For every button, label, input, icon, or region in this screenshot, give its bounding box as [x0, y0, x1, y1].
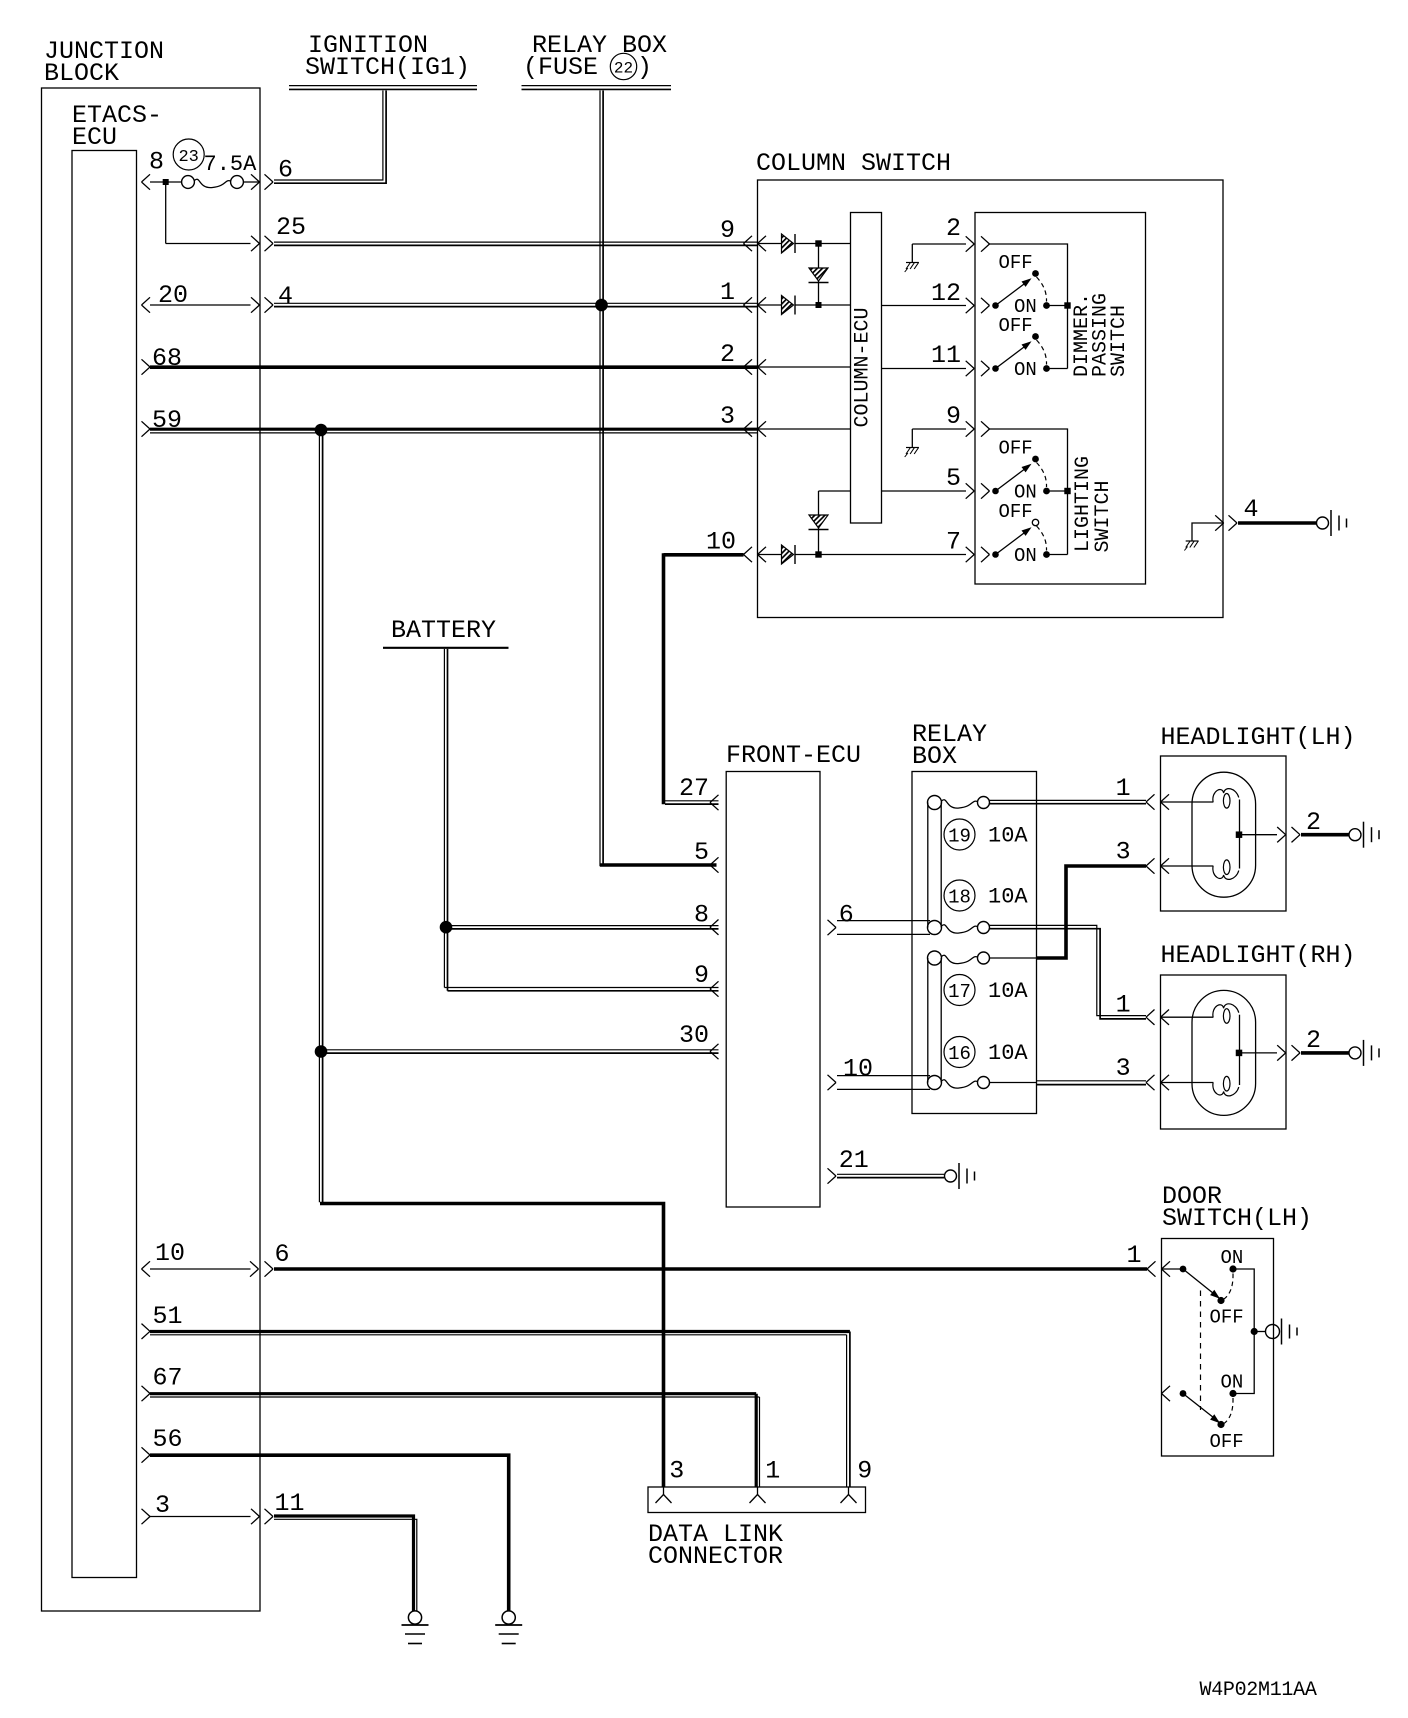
- ETACS pin 3 arrow: [142, 1509, 151, 1524]
- wire battery to front-ecu pin9: [444, 988, 718, 991]
- svg-text:17: 17: [948, 981, 971, 1003]
- ETACS pin 20 arrow: [142, 297, 151, 312]
- svg-text:67: 67: [153, 1364, 183, 1393]
- dlc pin 1 fork: [750, 1487, 766, 1503]
- junction block pin 11 arrows: [251, 1509, 273, 1524]
- junction wire59 drop: [315, 424, 327, 436]
- svg-text:COLUMN-ECU: COLUMN-ECU: [852, 307, 875, 427]
- headlight RH label: [1161, 941, 1356, 970]
- wire riser to dlc pin 3: [320, 1204, 664, 1488]
- door switch upper contact: [1180, 1266, 1225, 1305]
- front-ecu pin 30 label: [679, 1021, 709, 1050]
- fuse 16: [928, 1076, 990, 1090]
- headlight LH pin 1 label: [1116, 774, 1131, 803]
- door switch upper dashed: [1224, 1274, 1233, 1300]
- door switch upper OFF label: [1210, 1307, 1244, 1329]
- ETACS pin 67 label: [153, 1364, 183, 1393]
- wire pin8 to fuse: [150, 181, 182, 183]
- wire col10 to lighting switch: [795, 554, 966, 556]
- fuse 17: [928, 951, 990, 965]
- fuse 17 label: [944, 975, 1028, 1006]
- dlc pin 9 label: [857, 1457, 872, 1486]
- dlc pin 9 fork: [841, 1487, 857, 1503]
- svg-text:10: 10: [155, 1239, 185, 1268]
- dimmer switch passing dashed: [1037, 340, 1047, 365]
- wire riser to front-ecu pin27: [664, 801, 719, 804]
- svg-text:5: 5: [946, 464, 961, 493]
- dlc pin 3 label: [669, 1457, 684, 1486]
- dimmer-passing switch box: [975, 213, 1146, 585]
- svg-text:4: 4: [1244, 495, 1259, 524]
- column pin 4 label: [1244, 495, 1259, 524]
- column ecu pin 2 arrows: [966, 236, 990, 251]
- door switch LH box: [1162, 1239, 1274, 1457]
- ETACS-ECU label: [72, 101, 162, 152]
- column ecu pin 7 arrows: [966, 547, 990, 562]
- svg-text:8: 8: [694, 901, 709, 930]
- wire ecu pin12: [882, 305, 967, 307]
- svg-text:12: 12: [931, 279, 961, 308]
- ETACS pin 68 label: [152, 344, 182, 373]
- front-ecu pin 6 label: [839, 901, 854, 930]
- junction block box: [42, 88, 261, 1611]
- wire RH pin3 to bulb: [1161, 1082, 1214, 1084]
- ETACS pin 59 arrow: [142, 421, 151, 436]
- junction block pin 4 arrows: [251, 297, 273, 312]
- svg-text:OFF: OFF: [1210, 1307, 1244, 1329]
- wire fuse16 out: [990, 1082, 1037, 1084]
- svg-text:51: 51: [153, 1302, 183, 1331]
- svg-text:BOX: BOX: [912, 742, 957, 771]
- wire fuse22 drop: [600, 91, 603, 867]
- svg-text:23: 23: [178, 148, 198, 167]
- column pin 2 label: [720, 340, 735, 369]
- wire 59 to column pin 3: [150, 429, 758, 433]
- fuse 19-18 bus: [928, 803, 941, 928]
- svg-text:9: 9: [946, 402, 961, 431]
- wire 25 to column pin 9: [274, 242, 758, 245]
- lighting switch head contact: [992, 519, 1039, 558]
- svg-text:BLOCK: BLOCK: [44, 59, 119, 88]
- wire fuse19 to headlight LH pin1: [990, 800, 1147, 803]
- ETACS pin 56 label: [153, 1425, 183, 1454]
- junction door switch ground: [1251, 1328, 1258, 1335]
- wire ecu pin11: [882, 368, 967, 370]
- headlight RH pin 1 label: [1116, 991, 1131, 1020]
- ground wire 56: [495, 1611, 522, 1644]
- ETACS pin 68 arrow: [142, 359, 151, 374]
- wire fuse to junction edge: [244, 181, 260, 183]
- junction block pin 6 arrows: [251, 174, 273, 189]
- headlight RH box: [1161, 975, 1287, 1129]
- svg-text:3: 3: [1116, 1054, 1131, 1083]
- wire dimmer common: [912, 243, 966, 245]
- wire pin21 to ground: [837, 1174, 944, 1177]
- relay box (fuse 22) bus bar: [522, 86, 672, 90]
- column pin 9 label: [720, 216, 735, 245]
- relay box label: [912, 720, 987, 771]
- ignition switch bus bar: [289, 86, 477, 90]
- column ecu pin 9 label: [946, 402, 961, 431]
- fuse 17-16 bus: [928, 958, 941, 1083]
- svg-text:11: 11: [275, 1489, 305, 1518]
- svg-text:3: 3: [1116, 838, 1131, 867]
- headlight LH pin 3 label: [1116, 838, 1131, 867]
- svg-text:3: 3: [720, 402, 735, 431]
- junction wire drop - pin30: [315, 1046, 327, 1058]
- svg-text:10A: 10A: [988, 824, 1028, 849]
- junction block pin 6b label: [275, 1240, 290, 1269]
- ETACS pin 3 label: [155, 1491, 170, 1520]
- dimmer switch hi OFF label: [999, 252, 1033, 274]
- ETACS pin 56 arrow: [142, 1447, 151, 1462]
- svg-text:SWITCH(LH): SWITCH(LH): [1162, 1204, 1312, 1233]
- data link connector box: [648, 1487, 866, 1513]
- headlight RH pin 2 arrows: [1277, 1045, 1300, 1060]
- wire drop to front-ecu pin30: [323, 1050, 719, 1053]
- svg-text:CONNECTOR: CONNECTOR: [648, 1542, 783, 1571]
- ground column switch: [1317, 510, 1347, 536]
- wire pin6 to fuse 18: [837, 921, 930, 935]
- headlight RH pin 2 label: [1306, 1026, 1321, 1055]
- wire row3 inside junction: [150, 1516, 251, 1518]
- door switch lower ON label: [1221, 1372, 1244, 1394]
- dimmer-passing switch label: [1071, 293, 1131, 377]
- svg-text:6: 6: [839, 901, 854, 930]
- svg-text:10A: 10A: [988, 1041, 1028, 1066]
- diode col9-col1: [809, 244, 829, 306]
- svg-text:HEADLIGHT(LH): HEADLIGHT(LH): [1161, 723, 1356, 752]
- junction block pin 4 label: [278, 282, 293, 311]
- door switch link dashed: [1200, 1291, 1202, 1411]
- wire ecu pin5: [882, 490, 967, 492]
- svg-text:56: 56: [153, 1425, 183, 1454]
- ETACS pin 20 label: [158, 281, 188, 310]
- wire 59 drop to dlc-3 riser: [319, 430, 322, 1202]
- wire LH bulb to pin2: [1240, 834, 1278, 836]
- column ecu pin 5 label: [946, 464, 961, 493]
- svg-text:OFF: OFF: [999, 501, 1033, 523]
- svg-text:2: 2: [1306, 808, 1321, 837]
- svg-text:6: 6: [275, 1240, 290, 1269]
- ETACS pin 10 arrow: [142, 1261, 274, 1276]
- fuse 19 label: [944, 819, 1028, 850]
- wire 51 riser: [847, 1332, 850, 1488]
- wire row25 inside junction: [166, 243, 251, 245]
- svg-text:9: 9: [857, 1457, 872, 1486]
- svg-text:2: 2: [720, 340, 735, 369]
- wire fuse17 to headlight LH pin3: [1037, 866, 1147, 958]
- wire door switch to ground: [1254, 1331, 1265, 1333]
- dimmer switch hi contact: [992, 270, 1039, 309]
- junction block pin 6 label: [278, 156, 293, 185]
- headlight RH pin 3 arrows: [1146, 1075, 1169, 1090]
- svg-text:SWITCH: SWITCH: [1108, 305, 1131, 377]
- door switch bus: [1233, 1269, 1254, 1394]
- front-ecu pin 5 label: [694, 838, 709, 867]
- headlight LH pin 3 arrows: [1146, 858, 1169, 873]
- junction block pin 25 label: [276, 213, 306, 242]
- lighting switch head ON dot: [1043, 551, 1067, 558]
- battery bus bar: [383, 647, 509, 649]
- column pin 1 arrows: [744, 297, 767, 312]
- wire fuse18 to headlight RH pin1: [990, 925, 1147, 1019]
- column switch box: [758, 180, 1224, 618]
- svg-text:1: 1: [720, 278, 735, 307]
- door switch lower contact: [1180, 1390, 1225, 1428]
- lighting switch head ON label: [1014, 545, 1037, 567]
- wire RH bulb to pin2: [1240, 1052, 1278, 1054]
- svg-text:COLUMN SWITCH: COLUMN SWITCH: [756, 149, 951, 178]
- dimmer switch hi ON dot: [1043, 302, 1067, 309]
- lighting switch head dashed: [1037, 526, 1047, 551]
- headlight RH pin 3 label: [1116, 1054, 1131, 1083]
- lighting switch tail ON label: [1014, 482, 1037, 504]
- column ecu pin 11 label: [931, 341, 961, 370]
- diode col pin10: [782, 545, 796, 564]
- door switch lower ON dot: [1229, 1390, 1236, 1397]
- column pin 9 arrows: [744, 236, 767, 251]
- dimmer switch passing ON label: [1014, 359, 1037, 381]
- column pin 3 arrows: [744, 421, 767, 436]
- svg-text:7.5A: 7.5A: [204, 152, 258, 177]
- wire col10 diode: [758, 554, 782, 556]
- svg-text:SWITCH: SWITCH: [1092, 480, 1115, 552]
- svg-text:3: 3: [155, 1491, 170, 1520]
- wire fuse17 out: [990, 957, 1037, 959]
- ETACS pin 10 label: [155, 1239, 185, 1268]
- wire battery to front-ecu pin8: [446, 926, 719, 929]
- svg-text:(FUSE: (FUSE: [523, 53, 598, 82]
- wire LH pin2 to ground: [1301, 833, 1349, 837]
- drawing number: [1200, 1679, 1317, 1702]
- svg-text:5: 5: [694, 838, 709, 867]
- front-ecu pin 6 arrow: [828, 920, 837, 935]
- svg-text:2: 2: [946, 214, 961, 243]
- svg-text:9: 9: [720, 216, 735, 245]
- lighting switch tail OFF label: [999, 438, 1033, 460]
- relay box box: [912, 772, 1037, 1114]
- front-ecu box: [726, 772, 820, 1208]
- svg-text:11: 11: [931, 341, 961, 370]
- column ecu pin 2 label: [946, 214, 961, 243]
- ETACS pin 51 arrow: [142, 1324, 151, 1339]
- dlc pin 1 label: [765, 1457, 780, 1486]
- junction dot fuse 23 input: [163, 179, 169, 185]
- wire 67 riser: [756, 1394, 759, 1487]
- svg-text:HEADLIGHT(RH): HEADLIGHT(RH): [1161, 941, 1356, 970]
- column pin 10 label: [706, 528, 736, 557]
- svg-text:FRONT-ECU: FRONT-ECU: [726, 741, 861, 770]
- lighting switch tail ON dot: [1043, 488, 1067, 495]
- wire 67 to dlc pin 1: [150, 1394, 760, 1397]
- column pin 10 wire: [664, 553, 744, 557]
- door switch lower arrow: [1162, 1386, 1171, 1401]
- junction block pin 25 arrows: [251, 236, 273, 251]
- wire 68 to column pin 2: [150, 365, 758, 369]
- door switch pin 1 label: [1126, 1241, 1141, 1270]
- column pin 3 label: [720, 402, 735, 431]
- junction lighting bus: [1064, 488, 1070, 494]
- door switch lower dashed: [1224, 1398, 1233, 1424]
- front-ecu pin 9 arrow: [710, 981, 719, 996]
- column switch label: [756, 149, 951, 178]
- dimmer switch hi dashed: [1037, 277, 1047, 302]
- lighting switch tail dashed: [1037, 463, 1047, 488]
- battery label: [391, 616, 496, 645]
- column pin 2 arrows: [744, 359, 767, 374]
- wire col2 to ecu: [758, 366, 851, 368]
- svg-text:BATTERY: BATTERY: [391, 616, 496, 645]
- svg-text:8: 8: [149, 148, 164, 177]
- column-ecu box: [851, 213, 882, 524]
- svg-text:): ): [637, 53, 652, 82]
- diode col pin1: [782, 296, 796, 315]
- wire pin10 to fuse 16: [837, 1076, 930, 1090]
- wire LH pin3 to bulb: [1161, 865, 1214, 867]
- column pin 4 ground stub: [1192, 523, 1223, 541]
- svg-text:2: 2: [1306, 1026, 1321, 1055]
- ignition switch label: [305, 31, 470, 82]
- ground headlight RH: [1349, 1040, 1379, 1066]
- svg-text:19: 19: [948, 826, 971, 848]
- wire LH pin1 to bulb: [1161, 801, 1214, 803]
- dimmer switch passing ON dot: [1043, 365, 1067, 372]
- junction wire4-fuse22: [596, 299, 608, 311]
- door switch pin 1 arrows: [1147, 1261, 1170, 1276]
- wire col1 to ecu: [795, 304, 851, 306]
- data link connector label: [648, 1520, 783, 1571]
- front-ecu pin 30 arrow: [710, 1044, 719, 1059]
- svg-text:22: 22: [614, 60, 633, 78]
- fuse 16 label: [944, 1037, 1028, 1068]
- svg-text:3: 3: [669, 1457, 684, 1486]
- headlight LH pin 2 label: [1306, 808, 1321, 837]
- ground column dimmer: [905, 244, 919, 272]
- svg-text:1: 1: [1126, 1241, 1141, 1270]
- svg-text:1: 1: [765, 1457, 780, 1486]
- wire dimmer common bus: [990, 244, 1068, 369]
- svg-text:OFF: OFF: [999, 438, 1033, 460]
- door switch upper ON dot: [1229, 1265, 1236, 1272]
- svg-text:10A: 10A: [988, 979, 1028, 1004]
- wire 56 to ground: [150, 1455, 509, 1611]
- junction battery - pin8: [440, 921, 452, 933]
- junction col10: [815, 551, 821, 557]
- headlight RH pin 1 arrows: [1146, 1010, 1169, 1025]
- column pin 10 arrows: [744, 547, 767, 562]
- svg-text:21: 21: [839, 1146, 869, 1175]
- junction block pin 11 label: [275, 1489, 305, 1518]
- svg-text:10: 10: [706, 528, 736, 557]
- column pin 4 arrows: [1215, 515, 1237, 530]
- ground headlight LH: [1349, 822, 1379, 848]
- wire fuse drop to row 25: [165, 182, 167, 244]
- column ecu pin 12 arrows: [966, 298, 990, 313]
- lighting switch head OFF label: [999, 501, 1033, 523]
- wire lighting common: [912, 428, 966, 430]
- fuse 23 rating label: [173, 139, 257, 177]
- ETACS pin 51 label: [153, 1302, 183, 1331]
- front-ecu pin 9 label: [694, 961, 709, 990]
- ground door switch: [1266, 1319, 1298, 1345]
- ETACS pin 59 label: [152, 406, 182, 435]
- svg-text:ON: ON: [1014, 545, 1037, 567]
- fuse 19: [928, 796, 990, 810]
- ground front-ecu pin21: [945, 1163, 975, 1189]
- dimmer switch passing contact: [992, 333, 1039, 372]
- wire col9 diode: [758, 243, 782, 245]
- svg-text:ON: ON: [1014, 359, 1037, 381]
- ground column lighting: [905, 429, 919, 457]
- wire lighting common bus: [990, 429, 1068, 555]
- diode col pin9: [782, 234, 796, 253]
- svg-text:W4P02M11AA: W4P02M11AA: [1200, 1679, 1317, 1702]
- front-ecu label: [726, 741, 861, 770]
- wire col9 to ecu: [795, 243, 851, 245]
- ETACS pin 8 arrow: [142, 174, 151, 189]
- column pin 7 label: [946, 528, 961, 557]
- svg-text:ECU: ECU: [72, 123, 117, 152]
- headlight LH bulb: [1192, 772, 1256, 897]
- front-ecu pin 21 arrow: [828, 1168, 837, 1183]
- door switch LH label: [1162, 1182, 1312, 1233]
- dimmer switch passing OFF label: [999, 315, 1033, 337]
- front-ecu pin 27 arrow: [710, 795, 719, 810]
- junction dimmer bus: [1064, 302, 1070, 308]
- svg-text:1: 1: [1116, 991, 1131, 1020]
- dimmer switch hi ON label: [1014, 296, 1037, 318]
- svg-text:30: 30: [679, 1021, 709, 1050]
- fuse 23: [182, 176, 244, 189]
- ground column pin4: [1184, 541, 1198, 551]
- svg-text:OFF: OFF: [1210, 1431, 1244, 1453]
- front-ecu pin 8 arrow: [710, 920, 719, 935]
- svg-text:25: 25: [276, 213, 306, 242]
- wire RH pin1 to bulb: [1161, 1016, 1214, 1018]
- fuse 18 label: [944, 880, 1028, 911]
- wire 11 to ground: [274, 1516, 417, 1611]
- column-ecu label: [852, 307, 875, 427]
- ETACS pin 8 label: [149, 148, 164, 177]
- ETACS pin 67 arrow: [142, 1386, 151, 1401]
- headlight LH pin 1 arrows: [1146, 794, 1169, 809]
- svg-text:7: 7: [946, 528, 961, 557]
- front-ecu pin 27 label: [679, 774, 709, 803]
- diode col5-col10: [809, 491, 851, 555]
- svg-text:1: 1: [1116, 774, 1131, 803]
- wire column pin10 riser: [662, 553, 666, 804]
- wire 4 to column pin 1: [274, 303, 758, 306]
- svg-text:OFF: OFF: [999, 252, 1033, 274]
- wire RH pin2 to ground: [1301, 1051, 1349, 1055]
- svg-text:16: 16: [948, 1043, 971, 1065]
- wire 51 to dlc pin 9: [150, 1332, 850, 1335]
- svg-text:SWITCH(IG1): SWITCH(IG1): [305, 53, 470, 82]
- relay box (fuse 22) label: [523, 31, 667, 82]
- wire fuse22 to front-ecu pin5: [600, 863, 717, 866]
- front-ecu pin 10 arrow: [828, 1075, 837, 1090]
- column pin 1 label: [720, 278, 735, 307]
- headlight LH box: [1161, 756, 1287, 911]
- column ecu pin 11 arrows: [966, 361, 990, 376]
- headlight LH pin 2 arrows: [1277, 827, 1300, 842]
- front-ecu pin 10 label: [843, 1055, 873, 1084]
- headlight RH bulb: [1192, 990, 1256, 1115]
- door switch upper ON label: [1221, 1247, 1244, 1269]
- door switch lower OFF label: [1210, 1431, 1244, 1453]
- svg-text:OFF: OFF: [999, 315, 1033, 337]
